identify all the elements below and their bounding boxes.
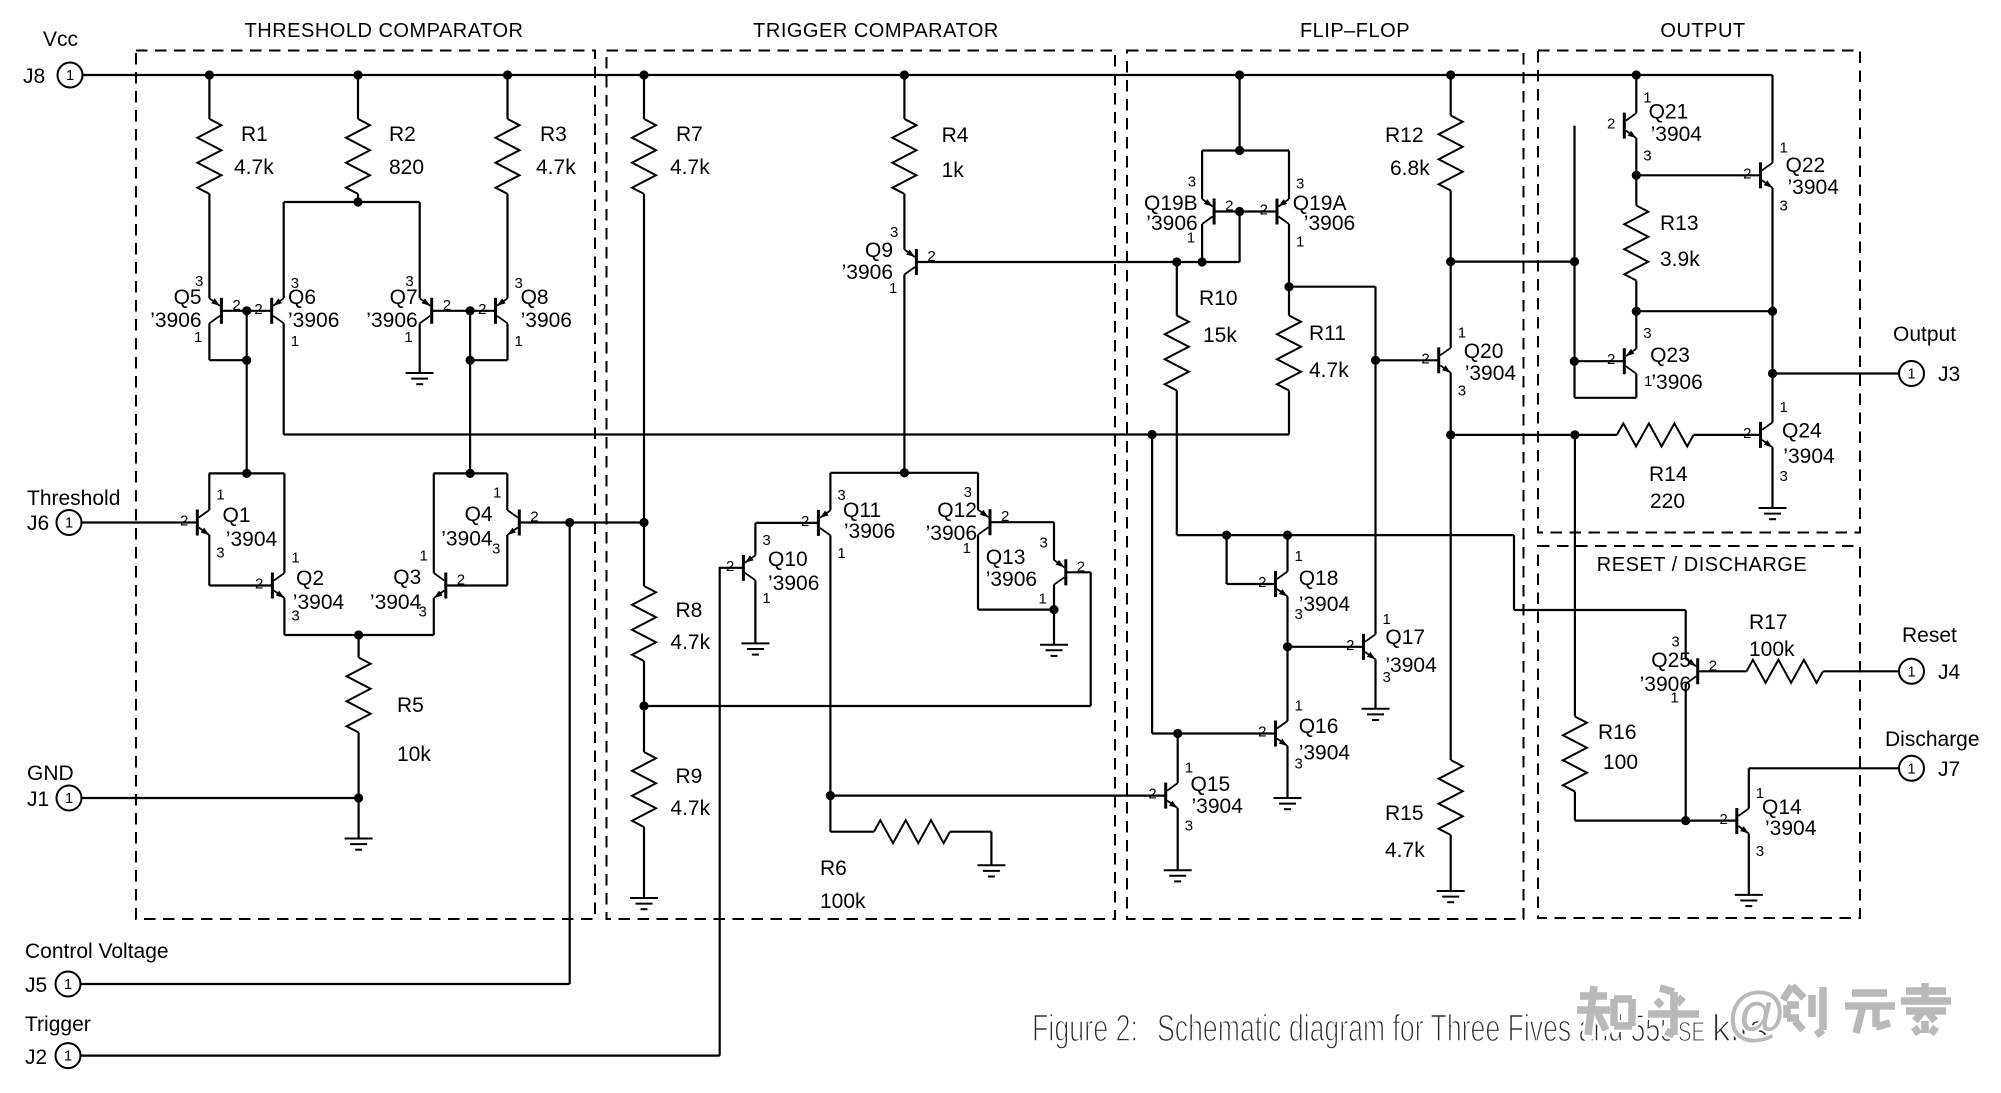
svg-text:3: 3 <box>1643 325 1651 342</box>
svg-text:FLIP–FLOP: FLIP–FLOP <box>1300 20 1410 42</box>
svg-text:Q9: Q9 <box>865 239 893 262</box>
svg-text:’3904: ’3904 <box>1192 795 1244 818</box>
svg-text:3: 3 <box>1188 174 1196 191</box>
svg-text:R5: R5 <box>397 694 424 717</box>
svg-text:2: 2 <box>726 558 734 575</box>
svg-text:3: 3 <box>1296 176 1304 193</box>
svg-text:4.7k: 4.7k <box>670 631 710 654</box>
svg-text:1: 1 <box>64 977 72 993</box>
svg-text:2: 2 <box>1001 508 1009 525</box>
svg-text:2: 2 <box>1148 786 1156 803</box>
svg-text:1k: 1k <box>942 159 965 182</box>
svg-text:R13: R13 <box>1660 212 1699 235</box>
svg-text:RESET / DISCHARGE: RESET / DISCHARGE <box>1597 554 1807 576</box>
svg-text:2: 2 <box>443 297 451 314</box>
svg-text:OUTPUT: OUTPUT <box>1660 20 1745 42</box>
svg-text:2: 2 <box>180 513 188 530</box>
svg-text:R10: R10 <box>1199 287 1238 310</box>
svg-text:2: 2 <box>927 248 935 265</box>
svg-text:Q14: Q14 <box>1762 796 1802 819</box>
svg-text:100k: 100k <box>1749 638 1795 661</box>
svg-text:2: 2 <box>1260 202 1268 219</box>
svg-text:Q13: Q13 <box>986 546 1026 569</box>
svg-text:1: 1 <box>515 333 523 350</box>
svg-text:’3904: ’3904 <box>1465 362 1517 385</box>
svg-text:Q6: Q6 <box>288 286 316 309</box>
svg-text:1: 1 <box>64 1049 72 1065</box>
svg-text:3: 3 <box>1671 633 1679 650</box>
svg-text:R1: R1 <box>241 123 268 146</box>
svg-text:Threshold: Threshold <box>27 487 120 510</box>
svg-text:’3904: ’3904 <box>1783 445 1835 468</box>
svg-text:4.7k: 4.7k <box>670 156 710 179</box>
svg-text:Q3: Q3 <box>393 566 421 589</box>
svg-text:’3904: ’3904 <box>1299 741 1351 764</box>
svg-text:2: 2 <box>1719 811 1727 828</box>
svg-text:R14: R14 <box>1649 463 1688 486</box>
svg-text:J8: J8 <box>23 65 45 88</box>
svg-text:Q22: Q22 <box>1786 154 1826 177</box>
svg-text:R17: R17 <box>1749 611 1788 634</box>
svg-text:’3904: ’3904 <box>226 528 278 551</box>
svg-text:4.7k: 4.7k <box>1385 839 1425 862</box>
svg-text:’3904: ’3904 <box>1788 176 1840 199</box>
svg-text:Reset: Reset <box>1902 624 1957 647</box>
svg-text:R4: R4 <box>942 124 969 147</box>
svg-text:1: 1 <box>837 545 845 562</box>
svg-text:2: 2 <box>530 509 538 526</box>
svg-text:’3904: ’3904 <box>1651 123 1703 146</box>
svg-text:Vcc: Vcc <box>43 28 78 51</box>
svg-text:’3906: ’3906 <box>366 309 417 332</box>
svg-text:1: 1 <box>493 485 501 502</box>
svg-text:4.7k: 4.7k <box>1309 359 1349 382</box>
svg-text:1: 1 <box>65 516 73 532</box>
svg-text:’3906: ’3906 <box>1146 212 1197 235</box>
svg-text:3: 3 <box>1039 534 1047 551</box>
svg-text:R11: R11 <box>1309 322 1346 345</box>
svg-text:1: 1 <box>1780 399 1788 416</box>
svg-text:R12: R12 <box>1385 124 1424 147</box>
svg-text:’3906: ’3906 <box>1651 371 1702 394</box>
svg-text:J4: J4 <box>1938 661 1961 684</box>
svg-text:Q24: Q24 <box>1782 420 1822 443</box>
svg-text:Q1: Q1 <box>223 504 251 527</box>
svg-text:1: 1 <box>66 68 74 84</box>
svg-text:Q7: Q7 <box>390 286 418 309</box>
svg-text:4.7k: 4.7k <box>670 797 710 820</box>
svg-text:Q4: Q4 <box>465 503 493 526</box>
svg-text:R16: R16 <box>1598 721 1637 744</box>
svg-text:4.7k: 4.7k <box>234 156 274 179</box>
svg-text:2: 2 <box>478 301 486 318</box>
svg-text:3: 3 <box>1185 818 1193 835</box>
svg-text:2: 2 <box>1077 558 1085 575</box>
svg-text:1: 1 <box>1907 761 1915 777</box>
svg-text:R6: R6 <box>820 857 847 880</box>
svg-text:Q15: Q15 <box>1191 773 1231 796</box>
svg-text:3: 3 <box>216 545 224 562</box>
svg-text:R8: R8 <box>676 599 703 622</box>
svg-text:1: 1 <box>1458 324 1466 341</box>
svg-text:Control Voltage: Control Voltage <box>25 940 169 963</box>
svg-text:3.9k: 3.9k <box>1660 248 1700 271</box>
svg-text:’3906: ’3906 <box>768 572 819 595</box>
svg-text:Q12: Q12 <box>937 499 977 522</box>
svg-text:3: 3 <box>492 541 500 558</box>
svg-text:1: 1 <box>1295 548 1303 565</box>
svg-text:J5: J5 <box>25 974 47 997</box>
svg-text:Q20: Q20 <box>1464 340 1504 363</box>
svg-text:2: 2 <box>1346 637 1354 654</box>
svg-text:’3906: ’3906 <box>150 309 201 332</box>
svg-text:2: 2 <box>1607 351 1615 368</box>
svg-text:2: 2 <box>801 513 809 530</box>
svg-text:J3: J3 <box>1938 363 1960 386</box>
svg-text:2: 2 <box>1607 116 1615 133</box>
svg-text:1: 1 <box>1907 664 1915 680</box>
svg-text:’3906: ’3906 <box>1304 212 1355 235</box>
svg-text:4.7k: 4.7k <box>536 156 576 179</box>
svg-text:R2: R2 <box>389 123 416 146</box>
svg-text:Discharge: Discharge <box>1885 728 1980 751</box>
svg-text:2: 2 <box>255 576 263 593</box>
svg-text:@: @ <box>1726 980 1787 1047</box>
svg-text:R15: R15 <box>1385 802 1424 825</box>
svg-text:3: 3 <box>1780 468 1788 485</box>
svg-text:1: 1 <box>419 548 427 565</box>
svg-text:J7: J7 <box>1938 758 1960 781</box>
svg-text:J6: J6 <box>27 512 49 535</box>
svg-text:’3904: ’3904 <box>293 591 345 614</box>
svg-text:’3904: ’3904 <box>1299 593 1351 616</box>
svg-text:2: 2 <box>232 297 240 314</box>
svg-text:2: 2 <box>1258 724 1266 741</box>
svg-text:2: 2 <box>1225 198 1233 215</box>
svg-text:2: 2 <box>254 301 262 318</box>
svg-text:Q23: Q23 <box>1650 344 1690 367</box>
svg-text:Output: Output <box>1893 323 1956 346</box>
svg-text:2: 2 <box>1709 657 1717 674</box>
svg-text:’3906: ’3906 <box>1640 673 1691 696</box>
svg-text:100k: 100k <box>820 890 866 913</box>
svg-text:3: 3 <box>762 532 770 549</box>
svg-text:Q2: Q2 <box>296 567 324 590</box>
svg-text:Q18: Q18 <box>1299 567 1339 590</box>
svg-text:1: 1 <box>1907 367 1915 383</box>
svg-text:Trigger: Trigger <box>25 1013 91 1036</box>
svg-text:’3906: ’3906 <box>844 520 895 543</box>
svg-text:R9: R9 <box>676 765 703 788</box>
svg-text:1: 1 <box>291 550 299 567</box>
svg-text:3: 3 <box>1756 843 1764 860</box>
svg-text:’3904: ’3904 <box>441 528 493 551</box>
svg-text:2: 2 <box>457 572 465 589</box>
svg-text:1: 1 <box>216 487 224 504</box>
svg-text:TRIGGER COMPARATOR: TRIGGER COMPARATOR <box>753 20 999 42</box>
svg-text:Q11: Q11 <box>843 499 881 522</box>
svg-text:Q21: Q21 <box>1649 101 1689 124</box>
svg-text:Q5: Q5 <box>174 286 202 309</box>
svg-text:Q8: Q8 <box>521 286 549 309</box>
svg-text:2: 2 <box>1743 425 1751 442</box>
svg-text:820: 820 <box>389 156 424 179</box>
svg-text:6.8k: 6.8k <box>1390 157 1430 180</box>
svg-text:2: 2 <box>1421 350 1429 367</box>
svg-text:Q17: Q17 <box>1385 626 1425 649</box>
svg-text:2: 2 <box>1743 165 1751 182</box>
svg-text:1: 1 <box>65 791 73 807</box>
svg-text:2: 2 <box>1258 574 1266 591</box>
svg-text:1: 1 <box>1296 234 1304 251</box>
svg-text:3: 3 <box>1780 197 1788 214</box>
svg-text:10k: 10k <box>397 743 431 766</box>
svg-text:J1: J1 <box>27 788 49 811</box>
svg-text:’3904: ’3904 <box>1385 654 1437 677</box>
svg-text:100: 100 <box>1603 751 1638 774</box>
svg-text:220: 220 <box>1650 490 1685 513</box>
svg-text:Figure 2:: Figure 2: <box>1032 1008 1138 1050</box>
svg-text:15k: 15k <box>1203 324 1237 347</box>
svg-text:Q16: Q16 <box>1299 715 1339 738</box>
svg-text:’3906: ’3906 <box>288 309 339 332</box>
svg-text:GND: GND <box>27 762 74 785</box>
svg-text:Q10: Q10 <box>768 548 808 571</box>
svg-text:’3906: ’3906 <box>926 522 977 545</box>
svg-text:Q25: Q25 <box>1651 649 1691 672</box>
svg-text:R3: R3 <box>540 123 567 146</box>
svg-text:THRESHOLD COMPARATOR: THRESHOLD COMPARATOR <box>245 20 524 42</box>
svg-text:J2: J2 <box>25 1046 47 1069</box>
svg-text:1: 1 <box>1295 698 1303 715</box>
svg-text:SE: SE <box>1678 1016 1705 1047</box>
svg-text:R7: R7 <box>676 123 703 146</box>
svg-text:’3904: ’3904 <box>1765 817 1817 840</box>
svg-text:’3906: ’3906 <box>986 568 1037 591</box>
svg-text:3: 3 <box>1643 148 1651 165</box>
svg-text:’3904: ’3904 <box>370 591 422 614</box>
svg-text:1: 1 <box>291 333 299 350</box>
svg-text:’3906: ’3906 <box>521 309 572 332</box>
svg-text:1: 1 <box>1038 590 1046 607</box>
svg-text:’3906: ’3906 <box>842 261 893 284</box>
